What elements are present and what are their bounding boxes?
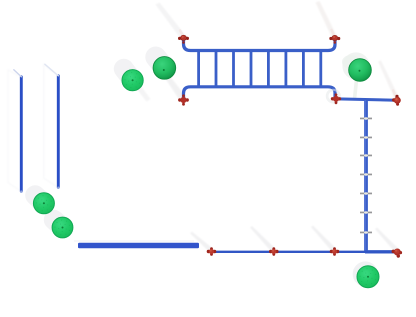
faint ring overlay on pipe at clamp D — [327, 90, 339, 102]
pink reflection on streak E — [393, 91, 395, 96]
pink reflection on streak B — [332, 30, 334, 34]
post streak at right pipe end clamp — [378, 60, 399, 100]
post streak at ladder bottom-left clamp — [165, 76, 187, 102]
rung tick 6 on vertical pipe — [360, 211, 372, 213]
post cylinder of cap P1 — [35, 195, 44, 203]
monkey-bar ladder bottom rail — [184, 87, 336, 99]
beam top ghost edge — [74, 240, 194, 242]
clamp C (ladder bottom-left) — [178, 94, 189, 105]
post cap P6 — [357, 266, 379, 288]
left rail 1 — [20, 77, 23, 191]
faint trail under cap P5 — [355, 80, 357, 99]
white post ring behind clamp D — [327, 90, 339, 102]
clamp I (bottom pipe 4) — [392, 249, 403, 258]
monkey-bar ladder top rail — [184, 39, 336, 51]
clamp E (right pipe end) — [392, 95, 401, 106]
post ground streak of cap P3 — [129, 76, 151, 102]
left rail 1 top 3d edge — [14, 70, 21, 77]
halo haze of cap P5 — [342, 55, 360, 69]
clamp A (ladder top-left) — [178, 35, 189, 44]
post streak at bottom pipe clamp 1 — [190, 232, 213, 253]
ladder rung 7 — [302, 51, 305, 87]
clamp G (bottom pipe 2) — [269, 247, 279, 256]
post halo of cap P6 — [353, 261, 378, 286]
left rail 2 top 3d edge — [45, 64, 59, 76]
clamp H (bottom pipe 3) — [330, 247, 340, 256]
left rail 2 bottom tip — [57, 187, 59, 189]
rung tick 4 on vertical pipe — [360, 173, 372, 175]
bottom thin pipe — [212, 251, 398, 253]
post streak at ladder top-right clamp — [316, 1, 338, 39]
ladder rung 4 — [250, 51, 253, 87]
bottom pipe thick segment to clamp I — [365, 250, 395, 253]
ladder rung 2 — [215, 51, 218, 87]
post streak at bottom pipe clamp 3 — [311, 226, 336, 253]
rung tick 3 on vertical pipe — [360, 154, 372, 156]
clamp D (ladder bottom-right) — [331, 93, 341, 104]
clamp B (ladder top-right) — [329, 35, 340, 44]
ladder rung 3 — [232, 51, 235, 87]
ghost frame of left rail 2 — [44, 65, 59, 188]
post streak at bottom pipe clamp 2 — [250, 226, 276, 252]
post cap P4 — [153, 57, 176, 80]
post cap P2 — [52, 217, 73, 238]
post cylinder of cap P3 — [124, 69, 133, 80]
rung tick 1 on vertical pipe — [360, 117, 372, 119]
post cap P1 — [33, 193, 54, 214]
left rail 1 bottom tip — [20, 190, 22, 192]
clamp F (bottom pipe 1) — [207, 247, 217, 256]
rung tick 7 on vertical pipe — [360, 231, 372, 233]
ladder rung 6 — [284, 51, 287, 87]
ladder rung 5 — [267, 51, 270, 87]
post streak at bottom pipe clamp 4 — [375, 228, 399, 253]
upper-right horizontal pipe — [337, 99, 397, 100]
left rail 2 — [57, 76, 60, 188]
ghost frame of left rail 1 — [8, 70, 21, 192]
post cylinder of cap P2 — [54, 220, 63, 228]
right vertical pipe highlight — [364, 100, 366, 251]
rung tick 2 on vertical pipe — [360, 136, 372, 138]
pink reflection on streak A — [180, 31, 182, 35]
post cylinder of cap P4 — [156, 57, 165, 68]
rung tick 5 on vertical pipe — [360, 192, 372, 194]
bottom thick beam — [78, 243, 199, 249]
right vertical pipe — [364, 100, 368, 252]
ladder rung 1 — [197, 51, 200, 87]
post cap P5 — [349, 59, 372, 82]
ladder rung 8 — [319, 51, 322, 87]
post halo of cap P5 — [342, 52, 369, 79]
post cap P3 — [122, 70, 143, 91]
post streak at ladder top-left clamp — [156, 3, 187, 40]
